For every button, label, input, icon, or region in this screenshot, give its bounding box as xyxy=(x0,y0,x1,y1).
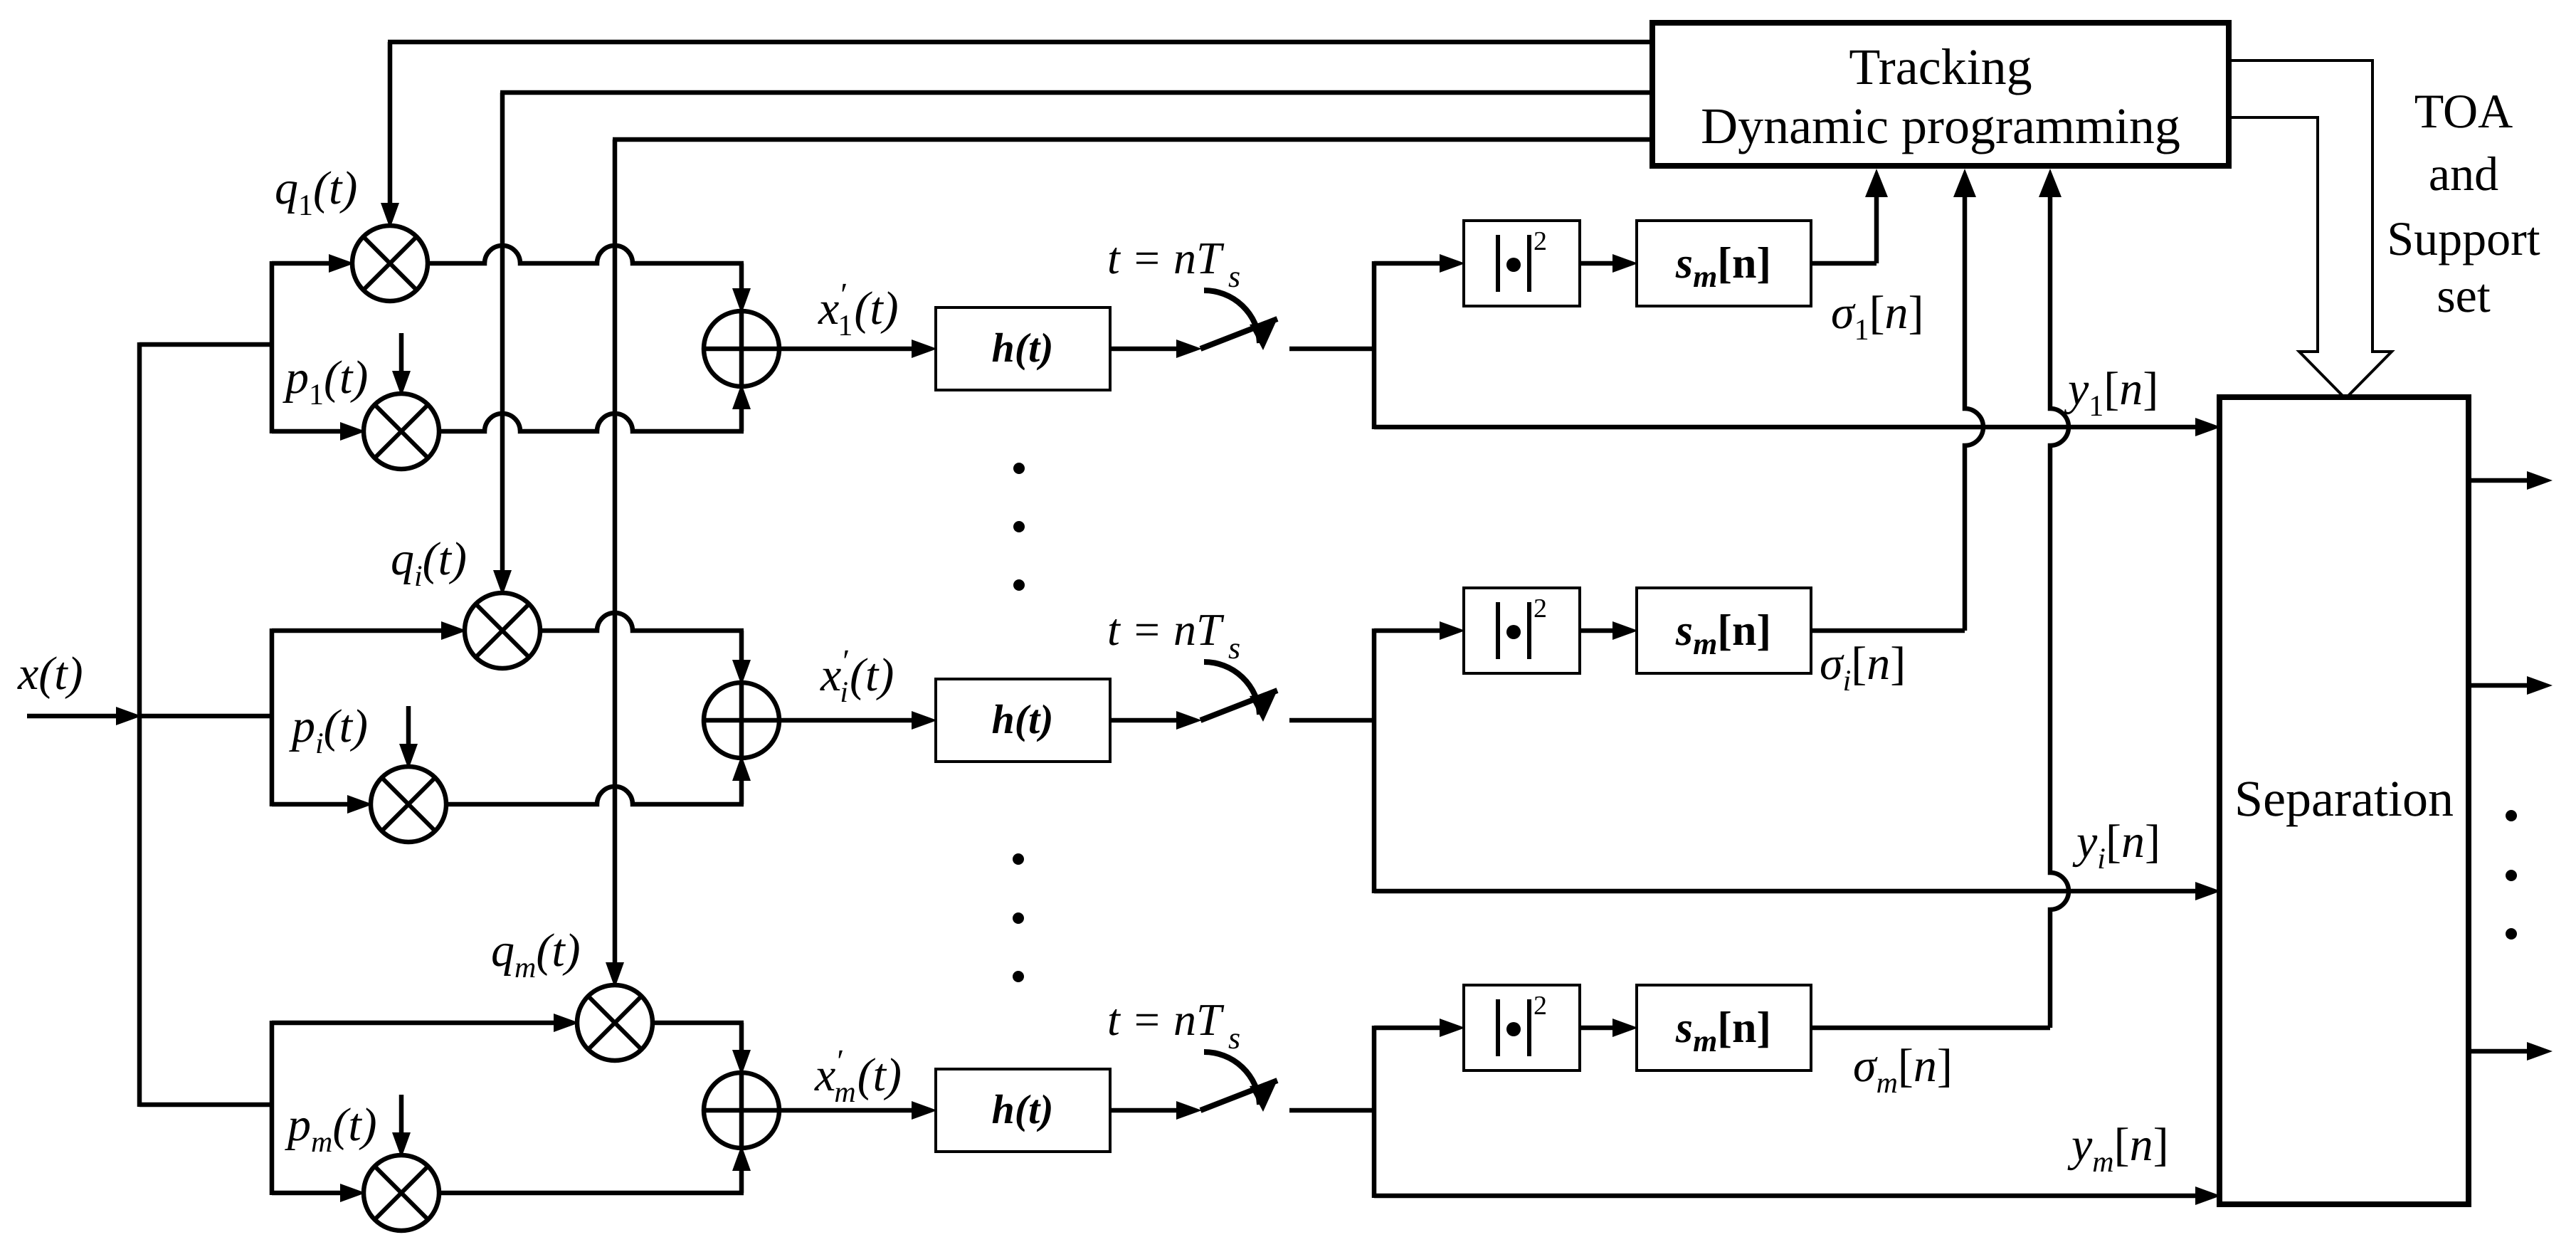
filter h(t) row 1 xyxy=(936,307,1110,390)
svg-text:2: 2 xyxy=(1534,226,1547,256)
svg-text:sm[n]: sm[n] xyxy=(1675,239,1771,294)
wire feedback 3 horizontal from Tracking xyxy=(613,137,1652,142)
svg-text:set: set xyxy=(2437,268,2491,322)
svg-text:σm[n]: σm[n] xyxy=(1853,1040,1953,1100)
mixer p1 xyxy=(364,394,439,469)
wire feedback 3 vertical into qm xyxy=(606,140,624,988)
wire qi output with hop xyxy=(540,613,744,631)
label t=nTs row i xyxy=(1107,604,1240,665)
label pi(t) xyxy=(289,700,368,760)
svg-text:Tracking: Tracking xyxy=(1849,38,2032,95)
svg-text:x(t): x(t) xyxy=(17,648,83,700)
svg-text:s: s xyxy=(1228,1021,1240,1056)
svg-text:Support: Support xyxy=(2387,211,2540,265)
wire pm output xyxy=(439,1191,744,1196)
block s_m[n] row i xyxy=(1637,588,1811,673)
block Tracking / Dynamic programming xyxy=(1652,23,2229,166)
wire feedback 2 vertical into qi xyxy=(493,93,512,596)
wire branch row1 vertical xyxy=(270,261,275,433)
wire switch output row 1 xyxy=(1289,347,1376,352)
label qi(t) xyxy=(391,533,467,593)
svg-text:TOA: TOA xyxy=(2414,84,2513,138)
wire into mixer q1 xyxy=(272,254,354,273)
mixer pi xyxy=(371,767,446,842)
svg-text:sm[n]: sm[n] xyxy=(1675,606,1771,661)
label y1[n] xyxy=(2064,363,2158,423)
wire qm output xyxy=(653,1021,744,1026)
wire q1 output with hops xyxy=(428,246,744,263)
svg-text:p1(t): p1(t) xyxy=(283,352,368,411)
wire junction rowi vertical xyxy=(1372,628,1377,893)
label t=nTs row 1 xyxy=(1107,233,1240,294)
block |.|^2 row 1 xyxy=(1464,221,1580,306)
wire into mixer qm xyxy=(272,1014,579,1032)
dots between rowi and rowm xyxy=(1013,853,1024,982)
wire feedback 1 horizontal from Tracking xyxy=(388,40,1652,45)
label q1(t) xyxy=(275,162,357,222)
svg-text:and: and xyxy=(2429,147,2498,201)
svg-text:σi[n]: σi[n] xyxy=(1820,638,1906,698)
wire junction rowm vertical xyxy=(1372,1026,1377,1198)
summer Sm xyxy=(704,1073,779,1148)
svg-text:t = nT: t = nT xyxy=(1107,994,1225,1045)
svg-text:s: s xyxy=(1228,259,1240,294)
wire branch rowi horizontal xyxy=(139,714,274,719)
wire feedback 1 vertical into q1 xyxy=(381,42,399,228)
wire Separation output 3 xyxy=(2469,1042,2553,1061)
wire p1(t) stub arrow xyxy=(392,333,411,396)
svg-text:pi(t): pi(t) xyxy=(289,700,368,760)
wire branch rowm horizontal xyxy=(139,1103,274,1107)
filter h(t) row m xyxy=(936,1069,1110,1152)
wire h(t) output row 1 xyxy=(1110,340,1202,358)
wire into summer m bottom xyxy=(732,1145,751,1193)
svg-text:x′m(t): x′m(t) xyxy=(814,1043,902,1109)
wire into mixer pi xyxy=(272,795,373,814)
block |.|^2 row i xyxy=(1464,588,1580,673)
block Separation xyxy=(2219,397,2469,1204)
block |.|^2 row m xyxy=(1464,985,1580,1070)
label x'1(t) xyxy=(818,276,899,342)
label qm(t) xyxy=(491,925,581,984)
svg-text:t = nT: t = nT xyxy=(1107,604,1225,655)
wire pi output with hop xyxy=(446,786,744,804)
svg-text:x′i(t): x′i(t) xyxy=(820,643,894,709)
wire ym[n] into Separation xyxy=(1374,1187,2221,1205)
wire into summer i top xyxy=(732,631,751,685)
label x'i(t) xyxy=(820,643,894,709)
svg-text:Separation: Separation xyxy=(2234,770,2454,827)
wire h(t) output row i xyxy=(1110,711,1202,730)
label t=nTs row m xyxy=(1107,994,1240,1056)
wire x'_1(t) into h(t) xyxy=(779,340,937,358)
label sigma1[n] xyxy=(1831,287,1924,347)
wire branch row1 horizontal xyxy=(139,342,274,347)
wire into summer 1 top xyxy=(732,263,751,314)
svg-text:x′1(t): x′1(t) xyxy=(818,276,899,342)
svg-text:s: s xyxy=(1228,631,1240,665)
mixer qi xyxy=(465,593,540,668)
wire into mixer pm xyxy=(272,1184,366,1202)
wire into summer 1 bottom xyxy=(732,384,751,431)
wire feedback 2 horizontal from Tracking xyxy=(500,90,1652,95)
svg-text:h(t): h(t) xyxy=(992,325,1054,371)
label sigmam[n] xyxy=(1853,1040,1953,1100)
sampling switch row i xyxy=(1200,662,1277,722)
dots right of Separation xyxy=(2506,810,2517,940)
wire sigma1 to Tracking xyxy=(1811,169,1888,263)
label x'm(t) xyxy=(814,1043,902,1109)
wire |.|^2 to s_m[n] row i xyxy=(1580,621,1638,640)
mixer qm xyxy=(577,985,653,1061)
svg-text:q1(t): q1(t) xyxy=(275,162,357,222)
filter h(t) row i xyxy=(936,679,1110,762)
svg-text:y1[n]: y1[n] xyxy=(2064,363,2158,423)
svg-text:sm[n]: sm[n] xyxy=(1675,1004,1771,1058)
svg-text:2: 2 xyxy=(1534,594,1547,623)
wire p1 output with hops xyxy=(439,414,744,431)
svg-text:h(t): h(t) xyxy=(992,1086,1054,1132)
svg-text:σ1[n]: σ1[n] xyxy=(1831,287,1924,347)
node x(t) input label xyxy=(17,648,83,700)
mixer q1 xyxy=(352,226,428,301)
label yi[n] xyxy=(2072,816,2160,875)
wire branch rowm vertical xyxy=(270,1021,275,1195)
sampling switch row 1 xyxy=(1200,290,1277,350)
wire into |.|^2 row 1 xyxy=(1374,254,1465,273)
block s_m[n] row m xyxy=(1637,985,1811,1070)
wire pm(t) stub arrow xyxy=(392,1095,411,1158)
wire into mixer qi xyxy=(272,621,467,640)
wire into |.|^2 row i xyxy=(1374,621,1465,640)
svg-text:yi[n]: yi[n] xyxy=(2072,816,2160,875)
svg-text:qi(t): qi(t) xyxy=(391,533,467,593)
wire pi(t) stub arrow xyxy=(399,706,418,769)
wire x'_m(t) into h(t) xyxy=(779,1101,937,1120)
wire sigmam to Tracking with hops xyxy=(1811,169,2069,1028)
label p1(t) xyxy=(283,352,368,411)
label pm(t) xyxy=(285,1099,377,1159)
block s_m[n] row 1 xyxy=(1637,221,1811,306)
svg-text:qm(t): qm(t) xyxy=(491,925,581,984)
wire Separation output 1 xyxy=(2469,471,2553,490)
dots between row1 and rowi xyxy=(1013,463,1025,591)
wire switch output row m xyxy=(1289,1108,1376,1113)
wire branch rowi vertical xyxy=(270,628,275,806)
label TOA and Support set xyxy=(2387,84,2540,322)
wire into summer m top xyxy=(732,1023,751,1075)
hollow arrow TOA and Support set xyxy=(2229,60,2392,399)
svg-text:ym[n]: ym[n] xyxy=(2067,1119,2169,1179)
wire x(t) input arrow into trunk xyxy=(27,707,142,725)
wire x'_i(t) into h(t) xyxy=(779,711,937,730)
summer Si xyxy=(704,683,779,758)
wire yi[n] into Separation xyxy=(1374,882,2221,900)
wire |.|^2 to s_m[n] row 1 xyxy=(1580,254,1638,273)
wire into summer i bottom xyxy=(732,755,751,804)
wire into mixer p1 xyxy=(272,422,366,441)
label sigmai[n] xyxy=(1820,638,1906,698)
mixer pm xyxy=(364,1155,439,1231)
wire |.|^2 to s_m[n] row m xyxy=(1580,1019,1638,1037)
wire h(t) output row m xyxy=(1110,1101,1202,1120)
summer S1 xyxy=(704,311,779,386)
wire junction row 1 vertical xyxy=(1372,261,1377,429)
wire input trunk vertical xyxy=(137,342,142,1107)
wire Separation output 2 xyxy=(2469,676,2553,695)
wire y1[n] into Separation xyxy=(1374,418,2221,436)
svg-text:h(t): h(t) xyxy=(992,696,1054,742)
wire sigmai to Tracking with hop xyxy=(1811,169,1983,631)
svg-text:Dynamic programming: Dynamic programming xyxy=(1701,98,2180,154)
sampling switch row m xyxy=(1200,1052,1277,1112)
svg-text:t = nT: t = nT xyxy=(1107,233,1225,283)
wire switch output row i xyxy=(1289,718,1376,723)
svg-text:2: 2 xyxy=(1534,991,1547,1021)
wire into |.|^2 row m xyxy=(1374,1019,1465,1037)
label ym[n] xyxy=(2067,1119,2169,1179)
